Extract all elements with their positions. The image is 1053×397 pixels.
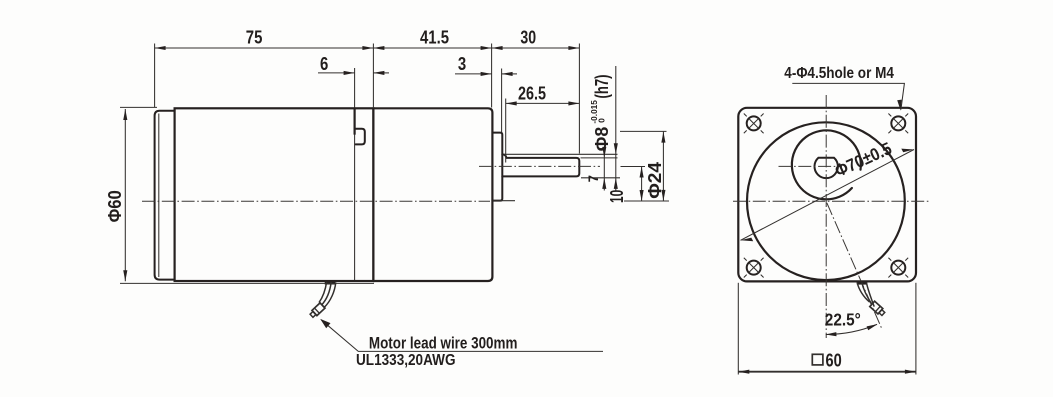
dim 7 label bbox=[585, 175, 601, 182]
svg-text:-0.015: -0.015 bbox=[590, 100, 599, 124]
svg-text:75: 75 bbox=[246, 28, 263, 48]
svg-text:3: 3 bbox=[458, 54, 466, 74]
svg-text:Motor lead wire 300mm: Motor lead wire 300mm bbox=[369, 335, 518, 353]
tab on ring bbox=[356, 129, 365, 145]
dim square60 bbox=[738, 283, 916, 375]
gearbox case circle bbox=[747, 122, 905, 280]
corner hole TR bbox=[888, 114, 908, 134]
front ring line left bbox=[354, 108, 356, 134]
dim phi8 h7 bbox=[504, 66, 620, 191]
svg-text:(h7): (h7) bbox=[592, 75, 612, 99]
shaft circle with flat bbox=[815, 158, 838, 178]
dim 26.5 bbox=[506, 83, 580, 162]
gearbox body bbox=[373, 108, 492, 281]
svg-text:6: 6 bbox=[320, 54, 328, 74]
svg-text:UL1333,20AWG: UL1333,20AWG bbox=[356, 352, 456, 369]
shaft axis centerline bbox=[479, 165, 600, 167]
leader: motor lead wire bbox=[321, 320, 603, 352]
svg-text:41.5: 41.5 bbox=[420, 28, 449, 48]
front vertical centerline bbox=[825, 95, 827, 338]
front lead wire bbox=[857, 283, 886, 317]
motor barrel body bbox=[175, 108, 374, 281]
22.5 degree angled centerline bbox=[827, 203, 882, 328]
svg-text:22.5°: 22.5° bbox=[825, 310, 861, 330]
dim phi24 bbox=[493, 131, 669, 201]
dim 6 bbox=[318, 54, 389, 108]
svg-text:Φ8: Φ8 bbox=[592, 127, 612, 152]
svg-text:60: 60 bbox=[826, 350, 842, 370]
svg-text:26.5: 26.5 bbox=[518, 83, 546, 103]
wire terminal (left view) bbox=[309, 303, 325, 318]
corner hole TL bbox=[744, 114, 764, 134]
dim 75 bbox=[155, 28, 374, 108]
dim 3 bbox=[455, 54, 517, 132]
svg-text:4-Φ4.5hole or M4: 4-Φ4.5hole or M4 bbox=[784, 65, 894, 82]
svg-text:7: 7 bbox=[585, 175, 601, 182]
svg-text:10: 10 bbox=[607, 190, 627, 203]
dim 10 bbox=[607, 167, 645, 204]
boss circle (with gap lower-right) bbox=[792, 130, 861, 199]
front ring line right bbox=[372, 108, 374, 281]
svg-text:Φ24: Φ24 bbox=[645, 162, 665, 199]
dim phi60 bbox=[105, 107, 374, 283]
svg-text:Φ60: Φ60 bbox=[105, 190, 125, 222]
dim 30 bbox=[492, 28, 580, 154]
dim 41.5 bbox=[373, 28, 491, 108]
front horizontal centerline bbox=[733, 200, 930, 202]
lead wire (left view) bbox=[309, 282, 336, 318]
corner hole BR bbox=[888, 258, 908, 278]
dim phi70 bbox=[741, 138, 915, 241]
corner hole BL bbox=[744, 258, 764, 278]
wire terminal (front view) bbox=[870, 301, 886, 316]
svg-text:30: 30 bbox=[520, 28, 536, 48]
output shaft bbox=[502, 155, 579, 177]
label 4-phi4.5 hole or M4 bbox=[784, 65, 904, 111]
motor rear cap bbox=[155, 111, 175, 280]
front shaft horizontal centerline bbox=[779, 165, 843, 167]
leader arrowhead bbox=[320, 319, 330, 328]
22.5 degree arc dimension bbox=[825, 310, 878, 337]
output boss bbox=[492, 133, 502, 201]
motor axis centerline bbox=[142, 200, 490, 202]
flange square bbox=[738, 108, 916, 282]
